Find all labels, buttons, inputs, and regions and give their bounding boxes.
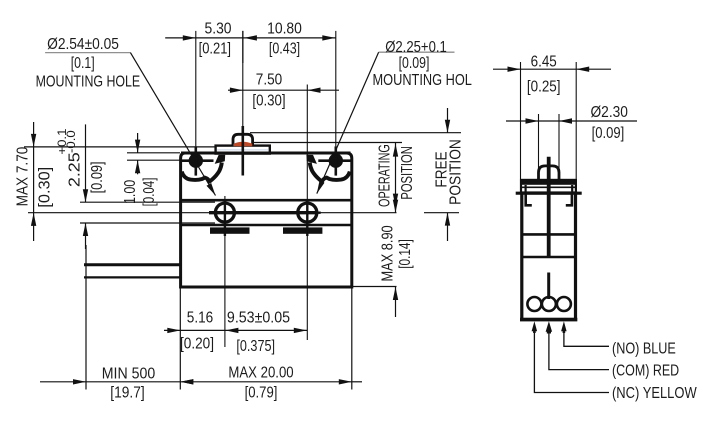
svg-text:Ø2.30: Ø2.30 (590, 103, 627, 121)
svg-text:[19.7]: [19.7] (110, 384, 144, 402)
svg-text:[0.30]: [0.30] (252, 93, 285, 110)
svg-text:9.53±0.05: 9.53±0.05 (227, 309, 290, 327)
svg-text:[0.25]: [0.25] (527, 79, 561, 96)
svg-text:[0.14]: [0.14] (395, 239, 413, 269)
svg-text:MIN 500: MIN 500 (102, 365, 155, 383)
svg-text:2.25: 2.25 (66, 152, 84, 187)
svg-text:(NO) BLUE: (NO) BLUE (612, 340, 676, 358)
svg-text:[0.43]: [0.43] (269, 40, 300, 58)
svg-text:(NC) YELLOW: (NC) YELLOW (612, 385, 697, 403)
svg-text:[0.04]: [0.04] (139, 178, 157, 207)
svg-text:Ø2.54±0.05: Ø2.54±0.05 (47, 35, 119, 53)
svg-text:[0.20]: [0.20] (180, 336, 214, 353)
svg-text:[0.1]: [0.1] (71, 55, 95, 73)
svg-text:MAX 7.70: MAX 7.70 (14, 147, 31, 207)
svg-text:1.00: 1.00 (122, 180, 140, 204)
svg-text:MOUNTING HOL: MOUNTING HOL (372, 72, 471, 90)
svg-text:[0.30]: [0.30] (36, 167, 54, 208)
svg-text:-0.0: -0.0 (64, 130, 77, 153)
svg-text:MOUNTING HOLE: MOUNTING HOLE (36, 73, 141, 91)
svg-text:[0.79]: [0.79] (245, 385, 278, 402)
svg-text:[0.09]: [0.09] (89, 161, 107, 193)
svg-text:6.45: 6.45 (531, 53, 557, 70)
svg-text:10.80: 10.80 (267, 20, 302, 38)
svg-text:[0.21]: [0.21] (199, 40, 231, 58)
svg-text:[0.09]: [0.09] (399, 55, 430, 73)
svg-text:7.50: 7.50 (256, 72, 282, 89)
svg-text:[0.375]: [0.375] (236, 338, 275, 356)
svg-text:5.30: 5.30 (204, 20, 231, 38)
svg-text:POSITION: POSITION (447, 139, 465, 205)
svg-text:POSITION: POSITION (397, 146, 416, 199)
svg-text:5.16: 5.16 (187, 310, 213, 327)
svg-text:[0.09]: [0.09] (592, 125, 625, 143)
svg-text:(COM) RED: (COM) RED (612, 362, 679, 380)
svg-text:MAX 20.00: MAX 20.00 (228, 365, 293, 382)
svg-text:OPERATING: OPERATING (375, 144, 393, 207)
svg-text:Ø2.25+0.1: Ø2.25+0.1 (385, 39, 447, 56)
